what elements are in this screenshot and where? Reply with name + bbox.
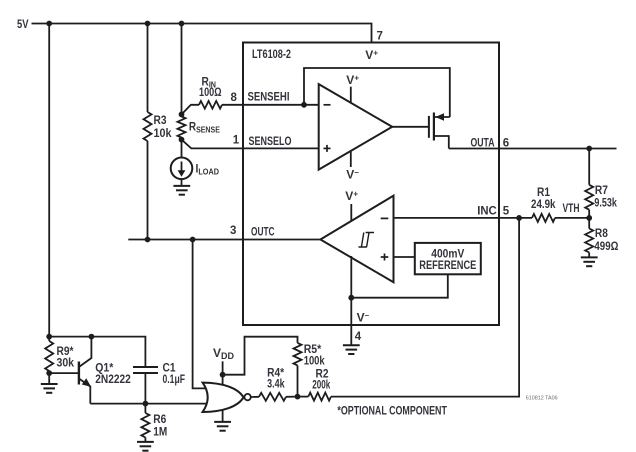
- svg-text:7: 7: [377, 30, 383, 42]
- svg-text:SENSEHI: SENSEHI: [248, 89, 290, 103]
- svg-text:R8: R8: [595, 226, 608, 240]
- svg-text:4: 4: [355, 331, 362, 343]
- svg-text:1M: 1M: [153, 425, 167, 439]
- svg-text:10k: 10k: [154, 126, 172, 140]
- svg-text:9.53k: 9.53k: [594, 196, 617, 210]
- svg-text:1: 1: [233, 135, 240, 147]
- svg-text:100k: 100k: [304, 354, 325, 368]
- svg-text:200k: 200k: [312, 378, 330, 392]
- svg-text:R3: R3: [154, 113, 167, 127]
- svg-text:5: 5: [503, 205, 510, 217]
- svg-text:610812 TA06: 610812 TA06: [526, 395, 558, 401]
- svg-text:8: 8: [231, 92, 238, 104]
- svg-text:OUTC: OUTC: [251, 224, 275, 238]
- svg-text:30k: 30k: [57, 355, 75, 369]
- svg-text:100Ω: 100Ω: [199, 87, 222, 99]
- svg-text:400mV: 400mV: [431, 249, 464, 261]
- svg-text:REFERENCE: REFERENCE: [419, 260, 476, 272]
- svg-text:OUTA: OUTA: [471, 135, 495, 149]
- svg-text:INC: INC: [477, 203, 497, 217]
- svg-text:VTH: VTH: [563, 201, 580, 215]
- svg-text:3.4k: 3.4k: [267, 377, 285, 391]
- svg-text:2N2222: 2N2222: [95, 372, 131, 386]
- svg-text:LT6108-2: LT6108-2: [252, 47, 291, 61]
- svg-text:24.9k: 24.9k: [531, 197, 556, 211]
- svg-text:SENSELO: SENSELO: [249, 134, 292, 148]
- svg-text:0.1μF: 0.1μF: [163, 372, 186, 386]
- svg-text:5V: 5V: [17, 17, 29, 31]
- svg-text:6: 6: [503, 137, 509, 149]
- svg-text:*OPTIONAL COMPONENT: *OPTIONAL COMPONENT: [337, 406, 447, 418]
- svg-text:3: 3: [230, 225, 236, 237]
- svg-text:499Ω: 499Ω: [594, 239, 618, 253]
